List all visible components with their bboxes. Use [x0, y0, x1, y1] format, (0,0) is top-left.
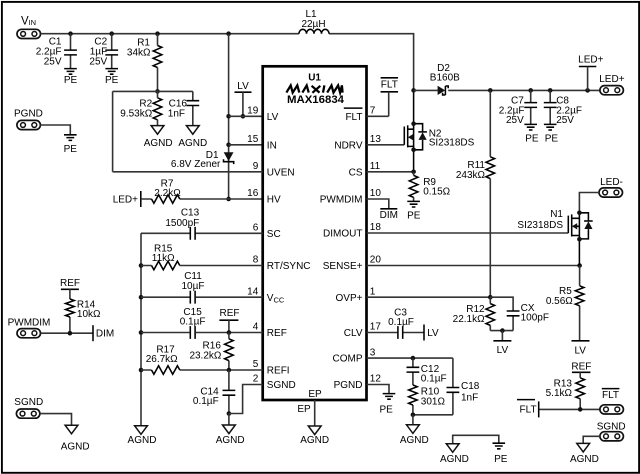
svg-text:1nF: 1nF [461, 392, 478, 403]
node R10-C18 [411, 413, 416, 418]
svg-text:SC: SC [267, 229, 281, 240]
node VIN-C2 [109, 31, 114, 36]
resistor R14 [66, 299, 101, 333]
ground AGND left bus [128, 426, 157, 447]
wire SGND pin [229, 385, 263, 414]
resistor R16 [189, 333, 233, 371]
ground PE C7 [524, 124, 538, 144]
svg-text:B160B: B160B [430, 73, 460, 84]
node VIN-LV-bus [226, 31, 231, 36]
pin 11 CS [349, 161, 381, 178]
svg-text:LED+: LED+ [578, 54, 603, 65]
svg-text:LV: LV [427, 328, 439, 339]
svg-text:AGND: AGND [440, 454, 469, 465]
svg-text:CS: CS [349, 167, 363, 178]
net label REF (R13) [571, 361, 591, 378]
svg-text:10: 10 [370, 188, 382, 199]
svg-text:SGND: SGND [597, 421, 626, 432]
node C8 tap [548, 88, 553, 93]
net label LV (C3) [424, 325, 439, 341]
node COMP [411, 356, 416, 361]
svg-text:REF: REF [220, 308, 240, 319]
svg-text:19: 19 [247, 106, 259, 117]
net label FLT (pin7) [381, 78, 399, 92]
ground PE C2 [105, 69, 119, 87]
svg-text:100pF: 100pF [521, 313, 549, 324]
node N1 drain [577, 211, 582, 216]
svg-text:OVP+: OVP+ [336, 293, 363, 304]
svg-text:17: 17 [370, 322, 382, 333]
svg-text:0.1µF: 0.1µF [193, 396, 219, 407]
svg-text:PE: PE [64, 75, 78, 86]
node REF-R16 [227, 330, 232, 335]
connector J6 LED- [599, 177, 623, 197]
pin 12 PGND [334, 374, 382, 391]
svg-text:COMP: COMP [333, 354, 363, 365]
svg-text:AGND: AGND [300, 435, 329, 446]
node HV [226, 197, 231, 202]
ground AGND R10 [400, 415, 429, 446]
wire IN pin [229, 144, 263, 146]
svg-text:LV: LV [267, 112, 279, 123]
pin 9 UVEN [253, 161, 295, 178]
svg-text:301Ω: 301Ω [421, 396, 446, 407]
wire REF [141, 332, 263, 334]
node FLT-R13 [578, 407, 583, 412]
pin 6 SC [253, 223, 281, 240]
ground AGND C16 [178, 126, 207, 149]
wire HV [141, 198, 263, 200]
node OVP+ [488, 295, 493, 300]
svg-text:22.1kΩ: 22.1kΩ [453, 314, 485, 325]
capacitor C3 [388, 307, 414, 339]
svg-text:REF: REF [571, 361, 591, 372]
svg-text:8: 8 [253, 255, 259, 266]
wire VCC [141, 296, 263, 298]
capacitor C15 [180, 307, 206, 339]
pin 17 CLV [344, 322, 382, 339]
pin 13 NDRV [334, 134, 381, 151]
pin 5 REFI [253, 359, 290, 376]
wire PWMDIM pin [367, 199, 389, 209]
resistor R9 [409, 172, 450, 202]
svg-text:DIMOUT: DIMOUT [323, 229, 362, 240]
capacitor C14 [193, 370, 235, 414]
svg-text:LV: LV [497, 345, 509, 356]
svg-text:NDRV: NDRV [334, 140, 362, 151]
wire EP [297, 400, 314, 426]
pin 19 LV [247, 106, 278, 123]
svg-text:25V: 25V [89, 56, 107, 67]
svg-text:AGND: AGND [216, 435, 245, 446]
svg-text:6.8V Zener: 6.8V Zener [171, 159, 221, 170]
svg-text:DIM: DIM [380, 210, 398, 221]
pin 8 RT/SYNC [253, 255, 311, 272]
node bus-RT/SYNC [139, 263, 144, 268]
pin 7 FLT [344, 106, 376, 123]
resistor R1 [127, 34, 162, 92]
node LV bus [226, 114, 231, 119]
net label REF (pin4) [219, 308, 239, 333]
pin 15 IN [247, 134, 277, 151]
capacitor C13 [165, 207, 199, 239]
node PWMDIM-R14 [68, 331, 73, 336]
svg-text:EP: EP [308, 389, 322, 400]
svg-text:10kΩ: 10kΩ [77, 309, 101, 320]
capacitor C12 [407, 358, 447, 385]
diode D2 B160B [414, 63, 461, 95]
svg-text:13: 13 [370, 134, 382, 145]
svg-text:12: 12 [370, 374, 382, 385]
svg-text:FLT: FLT [520, 405, 537, 416]
svg-text:SENSE+: SENSE+ [323, 261, 363, 272]
pin 10 PWMDIM [320, 188, 382, 205]
svg-text:11: 11 [370, 161, 381, 172]
svg-text:SGND: SGND [14, 397, 43, 408]
node IN [226, 143, 231, 148]
resistor R5 [546, 266, 584, 341]
wire D2 output [448, 89, 600, 91]
wire FLT pin [367, 92, 389, 117]
ground AGND EP [300, 426, 329, 446]
svg-text:16: 16 [247, 188, 259, 199]
IC U1 MAX16834 [263, 66, 367, 400]
svg-text:LED+: LED+ [599, 74, 624, 85]
svg-text:C18: C18 [461, 381, 480, 392]
resistor R17 [146, 345, 180, 375]
svg-text:PWMDIM: PWMDIM [320, 195, 363, 206]
wire DIMOUT [367, 232, 569, 234]
wire SENSE+ [367, 265, 580, 267]
svg-text:34kΩ: 34kΩ [127, 47, 151, 58]
svg-text:IN: IN [29, 18, 36, 27]
wire LV pin [229, 115, 263, 117]
wire PWMDIM input [41, 332, 94, 334]
node bus-REFI [139, 368, 144, 373]
net label LV (top) [235, 81, 252, 116]
svg-text:1nF: 1nF [168, 109, 185, 120]
wire LV bus [228, 34, 230, 199]
node REFI-R16 [227, 368, 232, 373]
wire VIN rail [41, 34, 414, 91]
ground AGND R2 [144, 126, 173, 149]
pin 2 SGND [253, 374, 296, 391]
svg-text:18: 18 [370, 222, 382, 233]
svg-text:PE: PE [105, 75, 119, 86]
wire COMP [367, 357, 453, 359]
net label LV (R5) [572, 341, 590, 357]
wire SC [141, 232, 263, 234]
capacitor CX [490, 297, 549, 330]
wire UVEN [113, 171, 263, 173]
svg-text:AGND: AGND [178, 138, 207, 149]
ground PE R9 [407, 201, 421, 221]
wire RT/SYNC [141, 265, 263, 267]
capacitor C11 [182, 271, 205, 303]
svg-text:LV: LV [574, 345, 586, 356]
wire CS [367, 171, 414, 173]
wire left AGND bus [140, 233, 142, 425]
svg-text:PWMDIM: PWMDIM [8, 317, 51, 328]
svg-text:FLT: FLT [602, 390, 619, 401]
svg-text:0.1µF: 0.1µF [180, 316, 206, 327]
svg-text:25V: 25V [506, 115, 524, 126]
capacitor C8 [544, 90, 582, 126]
svg-text:HV: HV [267, 195, 281, 206]
node LED+ tap [585, 88, 590, 93]
svg-text:AGND: AGND [144, 138, 173, 149]
wire CLV [367, 332, 425, 334]
svg-text:PE: PE [407, 210, 421, 221]
svg-text:REF: REF [60, 278, 80, 289]
svg-text:AGND: AGND [400, 435, 429, 446]
svg-text:0.1µF: 0.1µF [421, 374, 447, 385]
wire NDRV [367, 144, 405, 146]
svg-text:UVEN: UVEN [267, 167, 295, 178]
svg-text:PGND: PGND [14, 109, 43, 120]
svg-text:5: 5 [253, 359, 259, 370]
svg-text:0.15Ω: 0.15Ω [423, 187, 450, 198]
svg-text:LED+: LED+ [113, 194, 138, 205]
svg-text:LV: LV [237, 81, 249, 92]
capacitor C16 [168, 91, 199, 125]
svg-text:C13: C13 [181, 207, 200, 218]
svg-text:7: 7 [370, 106, 376, 117]
svg-text:IN: IN [267, 140, 277, 151]
connector J7 FLT [600, 389, 624, 414]
node R11 tap [488, 88, 493, 93]
svg-text:2.2kΩ: 2.2kΩ [154, 188, 181, 199]
resistor R10 [409, 385, 446, 415]
inductor L1 22uH [299, 9, 329, 34]
capacitor C18 [413, 358, 480, 415]
svg-text:22µH: 22µH [301, 19, 325, 30]
ground AGND SGND left [61, 425, 90, 452]
capacitor C7 [499, 90, 537, 126]
svg-text:SI2318DS: SI2318DS [429, 137, 475, 148]
svg-text:14: 14 [247, 286, 259, 297]
svg-text:4: 4 [253, 322, 259, 333]
svg-text:6: 6 [253, 223, 259, 234]
pin 4 REF [253, 322, 287, 339]
svg-text:25V: 25V [556, 115, 574, 126]
svg-text:PE: PE [64, 144, 78, 155]
svg-text:FLT: FLT [345, 112, 362, 123]
node bus-VCC [139, 295, 144, 300]
svg-text:1500pF: 1500pF [165, 218, 199, 229]
node LV stub [241, 114, 246, 119]
ground AGND C14 [216, 414, 245, 447]
net label FLT (left) [517, 400, 539, 418]
ground AGND right [570, 443, 599, 464]
svg-text:1: 1 [370, 286, 376, 297]
svg-text:EP: EP [297, 404, 311, 415]
pin 20 SENSE+ [323, 255, 382, 272]
node N2 drain [411, 121, 416, 126]
diode D1 6.8V zener [171, 150, 234, 170]
net label LED+ (HV) [113, 191, 141, 207]
svg-text:9.53kΩ: 9.53kΩ [120, 109, 152, 120]
svg-text:3: 3 [370, 347, 376, 358]
svg-text:RT/SYNC: RT/SYNC [267, 261, 311, 272]
net label LED+ (out) [578, 54, 603, 90]
svg-text:REFI: REFI [267, 366, 290, 377]
svg-text:PGND: PGND [334, 380, 363, 391]
resistor R11 [456, 90, 495, 297]
ground PE C1 [64, 69, 78, 87]
wire divider [113, 91, 193, 171]
svg-text:AGND: AGND [570, 454, 599, 465]
pin 18 DIMOUT [323, 222, 381, 239]
svg-text:243kΩ: 243kΩ [456, 170, 486, 181]
svg-text:11kΩ: 11kΩ [152, 253, 175, 264]
net label DIM (input) [93, 325, 114, 341]
resistor R7 [152, 179, 182, 204]
transistor N2 SI2318DS [404, 90, 474, 171]
ground PE PGND [64, 135, 78, 155]
node N1 source [577, 237, 582, 242]
net label DIM (pin10) [380, 209, 398, 221]
svg-text:MAX16834: MAX16834 [287, 94, 345, 106]
svg-text:CLV: CLV [344, 328, 363, 339]
net label REF (R14) [60, 278, 80, 299]
svg-text:PE: PE [380, 404, 394, 415]
node C14-SGND [227, 411, 232, 416]
ground PE PGND pin [380, 394, 396, 416]
node VIN-C1 [68, 31, 73, 36]
svg-text:26.7kΩ: 26.7kΩ [146, 354, 178, 365]
wire SGND right [583, 436, 600, 443]
transistor N1 SI2318DS [517, 209, 592, 265]
svg-text:DIM: DIM [96, 329, 114, 340]
node bus-REF [139, 330, 144, 335]
svg-text:AGND: AGND [128, 435, 157, 446]
resistor R15 [152, 244, 180, 270]
svg-text:U1: U1 [308, 73, 321, 84]
svg-text:N1: N1 [550, 209, 563, 220]
node SENSE+ [577, 263, 582, 268]
node CS [411, 170, 416, 175]
node R12-CX [500, 328, 505, 333]
svg-text:23.2kΩ: 23.2kΩ [189, 351, 221, 362]
svg-text:15: 15 [247, 134, 259, 145]
connector J2 PGND [14, 109, 43, 130]
svg-text:0.1µF: 0.1µF [388, 317, 414, 328]
capacitor C2 [89, 34, 118, 69]
svg-text:SGND: SGND [267, 380, 296, 391]
wire SGND input [40, 414, 72, 426]
ground PE C8 [544, 124, 558, 144]
ground tie AGND-PE [440, 435, 508, 465]
pin 16 HV [247, 188, 281, 205]
connector J1 VIN [17, 16, 41, 39]
svg-text:PE: PE [494, 454, 508, 465]
svg-text:SI2318DS: SI2318DS [517, 220, 563, 231]
wire PGND [40, 125, 70, 135]
capacitor C1 [36, 34, 77, 69]
node C7 tap [528, 88, 533, 93]
pin 3 COMP [333, 347, 376, 364]
connector J8 SGND right [597, 421, 626, 441]
connector J5 LED+ [599, 74, 624, 95]
wire OVP+ [367, 296, 491, 298]
svg-text:10µF: 10µF [182, 281, 205, 292]
svg-text:PE: PE [545, 134, 559, 145]
pin 14 VCC [247, 286, 285, 304]
node D2 anode [411, 88, 416, 93]
connector J3 PWMDIM [8, 317, 51, 337]
wire LED- [579, 193, 599, 213]
svg-text:REF: REF [267, 328, 287, 339]
node N2 source [411, 148, 416, 153]
svg-text:0.56Ω: 0.56Ω [546, 296, 573, 307]
wire PGND pin [367, 385, 390, 394]
svg-text:AGND: AGND [61, 442, 90, 453]
svg-text:2: 2 [253, 374, 259, 385]
svg-text:FLT: FLT [381, 80, 398, 91]
resistor R2 [120, 91, 162, 125]
svg-text:25V: 25V [44, 56, 62, 67]
resistor R12 [453, 297, 495, 330]
wire REFI [141, 369, 263, 371]
resistor R13 [546, 378, 585, 410]
node VIN-R1 [155, 31, 160, 36]
svg-text:LED-: LED- [600, 177, 623, 188]
svg-text:20: 20 [370, 255, 382, 266]
svg-text:CC: CC [274, 295, 285, 304]
svg-text:PE: PE [525, 134, 539, 145]
node R1-R2 divider [155, 89, 160, 94]
net label LV (R12) [493, 331, 511, 357]
svg-text:5.1kΩ: 5.1kΩ [546, 388, 573, 399]
svg-text:9: 9 [253, 161, 259, 172]
pin 1 OVP+ [336, 286, 376, 303]
connector J4 SGND left [14, 397, 43, 418]
wire FLT net [539, 408, 600, 410]
